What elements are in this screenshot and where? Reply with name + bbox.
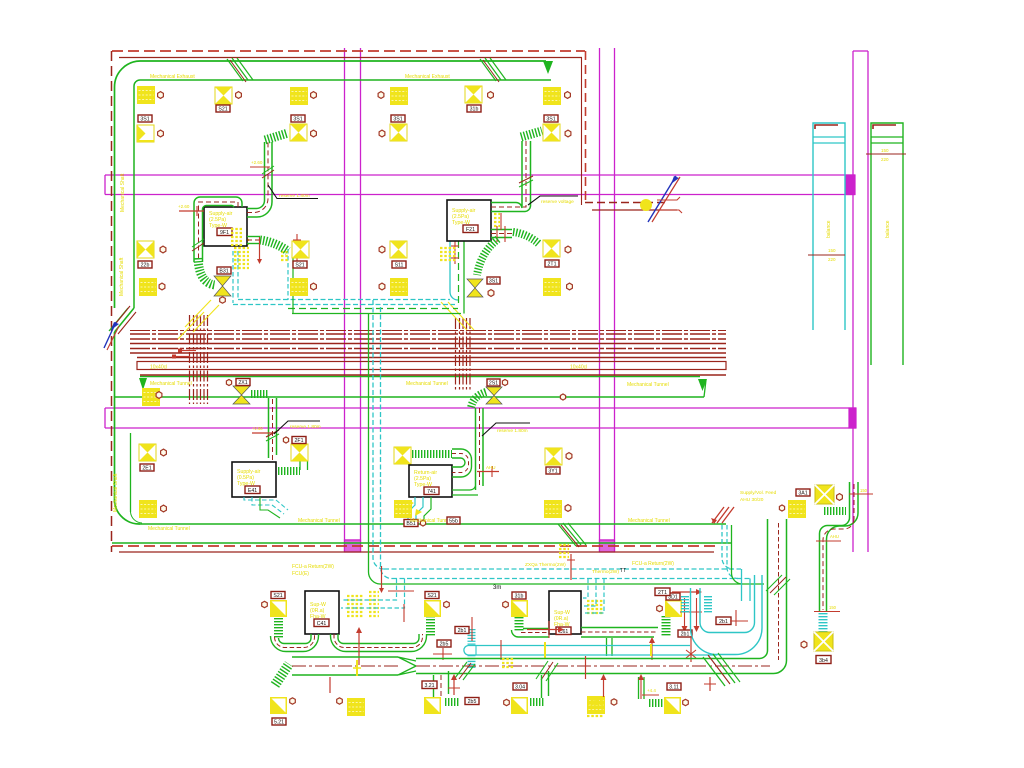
duct C61 right — [581, 628, 658, 638]
flex duct K2 — [426, 616, 435, 636]
node hex G2 — [226, 380, 231, 386]
north arrow blue — [104, 322, 119, 348]
diffuser C2 — [290, 124, 307, 141]
svg-text:Mechanical Exhaust: Mechanical Exhaust — [150, 74, 195, 80]
svg-text:reserve 1.80m: reserve 1.80m — [290, 424, 321, 430]
duct main lower — [292, 657, 400, 675]
duct right-top riser — [850, 482, 859, 519]
duct C61 left — [512, 629, 550, 638]
door hatch top B — [480, 58, 506, 82]
tag G3 — [487, 379, 500, 386]
diffuser bowtie E3 — [467, 279, 483, 297]
node hex A2 — [158, 130, 164, 137]
pipe chilled supply upper B — [233, 304, 455, 306]
diffuser A3 — [137, 241, 154, 258]
duct FCU2 right-down run — [491, 213, 512, 242]
beam line 1 — [130, 333, 726, 335]
cyan flex connector upper — [468, 629, 476, 645]
svg-text:S21: S21 — [273, 593, 282, 599]
FCU unit F21 — [447, 200, 491, 241]
node hex G1 — [156, 392, 162, 399]
node hex D1 — [378, 92, 384, 99]
svg-text:reserve 1.80m: reserve 1.80m — [279, 193, 310, 199]
svg-text:10x40cl: 10x40cl — [150, 365, 167, 371]
svg-text:reserve voltage: reserve voltage — [541, 199, 574, 205]
svg-text:Mechanical Exhaust: Mechanical Exhaust — [405, 74, 450, 80]
yellow dim E — [647, 688, 656, 693]
door hatch top A — [227, 58, 253, 82]
svg-text:+2.60: +2.60 — [251, 160, 263, 165]
return grille A1 — [137, 86, 155, 104]
riser leader diagonals yellow — [441, 302, 474, 330]
yellow cluster C41b — [369, 592, 379, 616]
pipe condensate upper — [292, 313, 461, 315]
dim tick cyan B — [471, 617, 473, 641]
return grille F4 — [543, 278, 561, 296]
pipe valve marks FCU1 — [293, 234, 301, 262]
yellow dim B — [353, 660, 361, 676]
svg-text:B31: B31 — [219, 268, 228, 274]
svg-text:2b1: 2b1 — [458, 628, 467, 634]
svg-text:3m: 3m — [493, 585, 501, 591]
yellow riser marks — [559, 545, 569, 557]
flex duct C2 branch — [265, 133, 288, 140]
duct reducer — [398, 657, 416, 675]
pipe condensate lower — [380, 583, 764, 585]
riser chilled supply — [373, 300, 384, 569]
return grille D1 — [390, 87, 408, 105]
wall top dashed — [112, 50, 585, 52]
shaft duct cyan — [808, 123, 845, 330]
beam hatch columns left — [190, 315, 208, 404]
dim tick right-top — [849, 488, 873, 494]
flex duct M2 — [445, 698, 459, 706]
pipe tag squiggle FCU1 — [231, 229, 242, 245]
bowtie text — [525, 562, 619, 575]
node hex M3 — [504, 699, 510, 705]
beam line 3 — [130, 343, 726, 345]
return grille D4 — [390, 278, 408, 296]
dim tick right-low — [814, 605, 840, 612]
diffuser C3 — [292, 241, 309, 258]
svg-text:TT: TT — [620, 568, 626, 574]
return grille A4 — [139, 278, 157, 296]
return grille I3 — [394, 500, 412, 518]
flex duct K4 — [662, 616, 671, 636]
tag A1 — [138, 115, 152, 122]
svg-text:FCU-a Return(2W): FCU-a Return(2W) — [632, 561, 674, 567]
divider arrow left — [139, 378, 147, 390]
door hatch bottom — [558, 523, 586, 547]
beam dim tick 2 — [172, 355, 190, 359]
section mark blue — [648, 176, 679, 222]
node hex J2 — [801, 641, 807, 648]
wall bottom solid — [119, 551, 714, 553]
duct right elbow — [820, 513, 859, 612]
node hex I4 — [565, 505, 571, 512]
svg-text:Mechanical Tunnel: Mechanical Tunnel — [148, 526, 190, 532]
tag H2x — [292, 437, 306, 444]
tag M1 — [272, 718, 286, 725]
node hex F1 — [565, 92, 571, 99]
return grille C1 — [290, 87, 308, 105]
cyan duct tick 1 — [500, 640, 502, 660]
flex duct 741 in — [412, 450, 452, 458]
svg-text:31b: 31b — [515, 593, 524, 599]
diffuser D3 — [390, 241, 407, 258]
svg-text:741: 741 — [427, 489, 436, 495]
svg-text:3S1: 3S1 — [293, 116, 302, 122]
flex duct bowtie G4 — [471, 392, 486, 408]
svg-text:220: 220 — [881, 157, 889, 162]
pipe arrows 741 — [407, 500, 422, 516]
label leader FCU1 — [268, 185, 318, 199]
room border left outer — [114, 87, 116, 308]
svg-text:Supply/Vol. Feed: Supply/Vol. Feed — [740, 490, 777, 496]
node hex divider — [560, 394, 565, 400]
dim G — [448, 674, 460, 695]
flex duct FCU2 up — [521, 131, 542, 137]
tag mid1 — [678, 630, 692, 637]
diffuser E1 — [465, 86, 482, 103]
label leader 741 — [482, 423, 530, 436]
return grille F1 — [543, 87, 561, 105]
svg-text:Mechanical Tunnel: Mechanical Tunnel — [627, 382, 669, 388]
dim arrow C41 — [356, 627, 362, 665]
wall text left lower — [113, 473, 119, 512]
beam box — [137, 362, 726, 371]
tag 3C1 — [796, 489, 810, 496]
svg-text:3A1: 3A1 — [798, 490, 807, 496]
svg-text:ZXQa Thermo(2W): ZXQa Thermo(2W) — [525, 562, 566, 568]
tag E1 — [467, 105, 481, 112]
return grille H0 — [139, 500, 157, 518]
svg-text:2E1: 2E1 — [142, 465, 151, 471]
riser from building B — [727, 525, 738, 579]
return grille I4 — [544, 500, 562, 518]
svg-text:+2.60: +2.60 — [252, 426, 263, 431]
svg-text:Mechanical Tunnel: Mechanical Tunnel — [628, 518, 670, 524]
section tick 1 — [657, 197, 680, 200]
diffuser I2 — [545, 448, 562, 465]
duct hatch lower mid — [455, 662, 475, 680]
cyan duct tick 3 — [686, 636, 696, 662]
node hex B1 — [236, 92, 242, 99]
node hex E1 — [488, 92, 494, 99]
FCU unit 9F1 — [204, 207, 247, 246]
tag G2 — [236, 379, 250, 386]
wall text left upper — [120, 173, 126, 212]
tag B1 — [216, 105, 230, 112]
svg-text:150: 150 — [881, 148, 889, 153]
divider text 2 — [406, 381, 448, 387]
svg-text:2b5: 2b5 — [440, 641, 449, 647]
airflow arrow top-right — [543, 61, 553, 74]
svg-text:Mechanical Shaft: Mechanical Shaft — [119, 257, 125, 296]
duct E41 stub — [300, 452, 308, 470]
svg-text:2S1: 2S1 — [489, 380, 498, 386]
tag G — [465, 698, 479, 705]
svg-text:S21: S21 — [218, 106, 227, 112]
FCU unit E41 — [232, 462, 276, 497]
dim text 3m — [493, 585, 501, 591]
wall left dashed — [111, 51, 113, 552]
diffuser M4 — [664, 697, 681, 714]
pipe branch C41 — [341, 579, 405, 609]
bottom text 1 — [298, 518, 340, 524]
pipe tag squiggle 1b — [281, 252, 289, 260]
tag M3 — [513, 683, 527, 690]
flex duct M4 — [649, 699, 663, 707]
dim vert F — [704, 677, 716, 691]
divider text 3 — [627, 382, 669, 388]
beam line 7 — [140, 374, 726, 376]
svg-text:3S1: 3S1 — [393, 116, 402, 122]
grid column band V3 — [853, 51, 868, 552]
grid column band V2 — [600, 48, 615, 552]
tag 741 pipes — [404, 520, 418, 527]
label leader E41 — [274, 421, 321, 434]
pipe valve marks FCU2 — [451, 240, 459, 264]
return grille G1 — [142, 388, 160, 406]
svg-text:150: 150 — [860, 488, 868, 493]
svg-text:balance: balance — [885, 220, 891, 238]
pipe tag squiggle 2 — [440, 248, 456, 260]
svg-text:2F1: 2F1 — [295, 438, 304, 444]
cyan coil L2 — [704, 596, 712, 613]
node hex C2 — [311, 130, 317, 137]
node hex J1 — [837, 494, 843, 501]
FCU text C41 — [292, 564, 334, 577]
node hex D3 — [379, 246, 385, 253]
duct hatch FCU2 — [519, 176, 533, 187]
svg-text:3S1: 3S1 — [546, 116, 555, 122]
node hex C4 — [311, 283, 317, 290]
diffuser box B31 — [214, 267, 231, 296]
dim arrow C3 — [257, 237, 262, 264]
pipes E41 out — [244, 497, 288, 518]
riser chilled return — [380, 307, 392, 579]
yellow mark H — [502, 659, 514, 667]
svg-text:Mechanical Tunnel: Mechanical Tunnel — [406, 381, 448, 387]
pipe chilled supply upper — [238, 299, 450, 301]
diffuser A2 — [137, 125, 154, 142]
svg-text:C41: C41 — [317, 621, 327, 627]
node hex 741 — [420, 520, 425, 526]
svg-text:Mechanical Tunnel: Mechanical Tunnel — [298, 518, 340, 524]
svg-text:AHU: AHU — [830, 534, 839, 539]
grid row band H2 — [105, 408, 856, 428]
node hex K2 — [444, 601, 450, 607]
svg-text:2T1: 2T1 — [658, 590, 667, 596]
lower bundle arrow — [379, 566, 384, 593]
svg-text:FCU(E): FCU(E) — [292, 571, 309, 577]
room border top outer — [115, 61, 547, 87]
wall right dashed — [582, 51, 586, 205]
flex duct J1 — [824, 507, 846, 515]
flex duct K1 — [274, 618, 283, 638]
svg-text:Mechanical Tunnel: Mechanical Tunnel — [150, 381, 192, 387]
tag A3 — [138, 261, 152, 268]
svg-text:S21: S21 — [295, 262, 304, 268]
dim tick E41 — [252, 426, 272, 433]
flex duct FCU1 branch — [198, 258, 215, 285]
room border top inner — [134, 80, 551, 86]
tag D1 — [391, 115, 405, 122]
dim tick C41b — [403, 604, 405, 622]
node hex M1 — [290, 698, 296, 704]
pipe riser FCU2 — [450, 241, 464, 314]
duct hatch E41 — [266, 430, 279, 441]
svg-text:+4.4: +4.4 — [647, 688, 656, 693]
wall jog diagonal — [109, 306, 136, 334]
duct hatch FCU1 — [192, 239, 204, 251]
FCU unit C41 — [305, 591, 339, 634]
svg-text:AHU 30/20: AHU 30/20 — [740, 497, 764, 503]
duct diag branch — [703, 653, 740, 686]
wall text left mid — [119, 257, 125, 296]
dim cross cyan duct — [433, 648, 452, 660]
label leader FCU2 — [528, 196, 578, 205]
corridor dashed line — [585, 202, 666, 204]
svg-text:3.04: 3.04 — [515, 684, 525, 690]
diffuser I1 — [394, 447, 411, 464]
svg-text:Mechanical Tunnel: Mechanical Tunnel — [410, 518, 452, 524]
svg-text:2b1: 2b1 — [681, 631, 690, 637]
tag C3 — [293, 261, 307, 268]
svg-text:150: 150 — [828, 248, 836, 253]
return grille C4 — [290, 278, 308, 296]
feed text — [740, 490, 777, 503]
flex duct duct2 left — [275, 664, 289, 685]
svg-text:S11: S11 — [395, 262, 404, 268]
top border text 1 — [150, 74, 195, 80]
tag M4 — [667, 683, 681, 690]
flex duct K3 — [515, 617, 524, 631]
dim pair D — [638, 674, 659, 699]
diffuser K2 — [424, 600, 441, 617]
tag K2 — [425, 592, 439, 599]
svg-text:3.21: 3.21 — [424, 683, 434, 689]
svg-text:31b: 31b — [470, 106, 479, 112]
cyan duct yellow 2 — [650, 644, 652, 656]
node hex K4 — [657, 605, 663, 611]
lower bundle tick — [567, 554, 575, 580]
svg-text:3.11: 3.11 — [669, 684, 679, 690]
dim tick FCU1 riser — [250, 160, 270, 167]
duct C41 left U — [271, 634, 319, 652]
node hex K1 — [262, 601, 268, 607]
cyan flex connector lower — [468, 655, 476, 668]
beam line 8 — [130, 330, 726, 332]
node hex G3 — [502, 380, 507, 386]
building bottom green outer — [140, 523, 726, 525]
node hex H2x — [283, 437, 288, 443]
cyan duct yellow 1 — [544, 642, 546, 658]
return grille M5 — [347, 698, 365, 716]
tag F1 — [544, 115, 558, 122]
duct FCU1 right-low — [247, 237, 260, 244]
yellow cluster C41a — [347, 596, 364, 616]
divider arrow right — [698, 379, 707, 391]
pipe branch C61 — [583, 579, 604, 614]
duct stub down A — [434, 671, 449, 697]
svg-text:2b1: 2b1 — [719, 619, 728, 625]
divider text 1 — [150, 381, 192, 387]
duct hatch lower mid2 — [536, 661, 558, 681]
tag J2 — [816, 656, 831, 664]
svg-text:3b4: 3b4 — [819, 658, 828, 664]
node hex I2 — [566, 453, 572, 460]
node hex B31 — [220, 297, 226, 303]
diffuser K3 — [511, 600, 528, 617]
duct E41 riser — [269, 398, 277, 460]
diffuser J1 — [815, 485, 834, 504]
wall bottom dashed — [112, 545, 718, 547]
duct main lower right — [416, 659, 774, 674]
return grille M6 — [587, 696, 605, 714]
riser from building A — [722, 525, 733, 569]
FCU text C61 — [632, 561, 674, 567]
pipe chilled supply lower — [384, 568, 741, 570]
pipe chilled return upper — [288, 308, 458, 310]
bottom text 3 — [628, 518, 670, 524]
room border left lower — [115, 332, 131, 512]
tag I2 — [546, 467, 560, 474]
flex duct C3 branch — [260, 240, 288, 251]
dim tick mid2 — [730, 610, 748, 626]
svg-text:F21: F21 — [466, 227, 475, 233]
diffuser B1 — [215, 87, 232, 104]
node hex F2 — [565, 130, 571, 137]
section mark red — [652, 177, 680, 222]
duct 741 riser — [476, 408, 484, 490]
tag bottom border — [447, 517, 460, 524]
dim arrow FCU1 — [178, 204, 204, 216]
node hex G5 — [779, 505, 784, 511]
tag H1x — [140, 464, 154, 471]
beam line 6 — [137, 357, 726, 359]
dim tick right-mid — [816, 534, 841, 541]
duct 741 U — [452, 449, 472, 477]
duct 741 riser elbow — [452, 486, 478, 495]
svg-text:10x40cl: 10x40cl — [570, 365, 587, 371]
duct FCU2 right-up run — [491, 141, 531, 212]
pipe chilled return lower — [392, 578, 750, 580]
FCU unit 741 — [409, 465, 452, 497]
node hex M6 — [611, 699, 617, 705]
dim vert C — [601, 674, 607, 697]
beam leader diagonals yellow — [178, 300, 219, 339]
diffuser F2 — [543, 124, 560, 141]
beam dim tick 1 — [178, 349, 196, 353]
duct FCU1 right-up run — [247, 142, 272, 217]
svg-text:balance: balance — [826, 220, 832, 238]
riser from building C — [732, 525, 743, 584]
svg-text:2X1: 2X1 — [238, 380, 247, 386]
grid row band H1 — [105, 175, 855, 195]
svg-text:Thermo(2W): Thermo(2W) — [592, 569, 619, 575]
bottom text 2 — [410, 518, 452, 524]
node hex K3 — [503, 601, 509, 607]
svg-text:+2.60: +2.60 — [178, 204, 190, 209]
duct FCU1 top run — [194, 197, 242, 262]
node hex M4 — [683, 699, 689, 705]
room border left inner — [133, 86, 135, 308]
tag E3 — [487, 277, 500, 284]
svg-text:3S1: 3S1 — [140, 116, 149, 122]
cyan coil L1 — [681, 596, 689, 613]
